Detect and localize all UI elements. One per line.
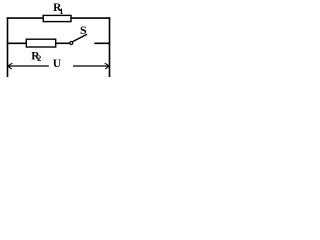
dimension line right segment with right arrow bbox=[73, 65, 109, 67]
wire: left vertical rail / dimension extension line bbox=[7, 17, 9, 77]
svg-text:2: 2 bbox=[37, 54, 41, 63]
svg-text:1: 1 bbox=[59, 6, 63, 16]
wire: top wire left segment bbox=[7, 17, 44, 19]
switch S hinge contact circle bbox=[70, 42, 73, 45]
wire: right vertical rail / dimension extension line bbox=[109, 17, 111, 77]
right arrowhead bbox=[105, 63, 110, 69]
resistor R1 bbox=[43, 15, 71, 21]
svg-text:U: U bbox=[53, 58, 62, 70]
switch S blade (open) bbox=[73, 34, 87, 41]
wire: middle wire between R2 and switch bbox=[56, 42, 70, 44]
wire: middle wire left segment bbox=[7, 42, 27, 44]
dimension line left segment with left arrow bbox=[8, 65, 49, 67]
wire: middle wire right stub to right rail bbox=[94, 42, 110, 44]
wire: top wire right segment bbox=[71, 17, 111, 19]
svg-text:S: S bbox=[80, 23, 87, 37]
resistor R2 bbox=[26, 39, 55, 47]
left arrowhead bbox=[8, 63, 13, 69]
